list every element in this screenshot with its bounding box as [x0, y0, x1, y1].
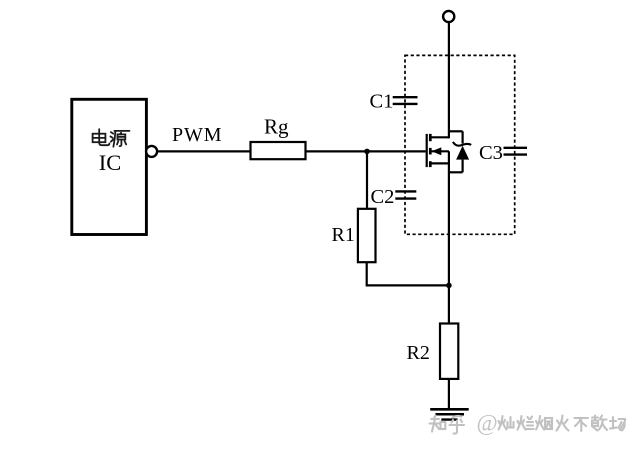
wire source vertical: [448, 151, 450, 323]
wire Rg to gate: [306, 150, 426, 152]
wm char 烂: [518, 416, 534, 430]
wire PWM: [157, 150, 250, 152]
wire R1 to source node: [367, 262, 449, 285]
wm char 火: [557, 416, 569, 431]
resistor R2: [440, 324, 458, 379]
svg-text:PWM: PWM: [172, 124, 222, 146]
label 电源: [93, 129, 130, 147]
capacitor C1: [393, 97, 418, 104]
wm char 不: [575, 418, 589, 431]
svg-text:C1: C1: [370, 91, 394, 113]
node gate junction: [364, 149, 370, 155]
capacitor C2: [395, 191, 416, 198]
svg-text:Rg: Rg: [264, 114, 289, 138]
MOSFET Q1: [427, 134, 449, 167]
wire junction to R1: [366, 151, 368, 209]
wm char 乎: [450, 416, 465, 434]
wm char 知: [430, 416, 446, 432]
watermark 知乎 @灿烂烟火不散场: [430, 411, 626, 436]
svg-text:@: @: [477, 411, 498, 436]
body diode D1: [449, 131, 471, 172]
svg-text:C3: C3: [479, 142, 503, 164]
svg-text:IC: IC: [99, 150, 122, 175]
resistor Rg: [251, 142, 306, 159]
wire R2 to ground: [448, 379, 450, 409]
wm char 烟: [536, 416, 552, 430]
node source junction: [446, 283, 452, 289]
capacitor C3: [504, 148, 528, 155]
svg-text:R2: R2: [407, 342, 430, 364]
svg-text:C2: C2: [371, 186, 395, 208]
PWM output terminal: [146, 146, 157, 157]
ground: [430, 409, 469, 419]
resistor R1: [358, 209, 376, 262]
wire drain vertical: [448, 22, 450, 138]
power IC box U1: [72, 99, 147, 234]
svg-text:R1: R1: [332, 224, 355, 246]
dashed box MOSFET model: [405, 55, 515, 234]
wm char 散: [592, 416, 607, 431]
wm char 场: [610, 417, 625, 431]
terminal top drain: [443, 11, 454, 22]
wm char 灿: [499, 416, 514, 430]
